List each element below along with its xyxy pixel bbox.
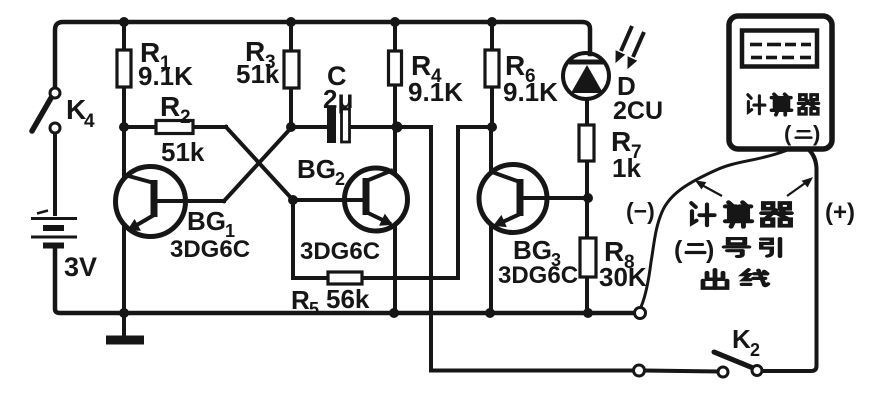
svg-text:9.1K: 9.1K: [138, 61, 193, 91]
terminal on lower rail: [634, 365, 645, 376]
switch K1: [32, 88, 60, 133]
wire BG2 collector: [393, 127, 397, 171]
wire R8 top: [585, 198, 589, 239]
resistor R7: [579, 125, 594, 161]
wire BG1 base diagonal to R3 node: [224, 128, 291, 201]
wire R1 top: [122, 22, 126, 52]
wire C right: [349, 125, 397, 129]
wire BG3 emitter: [489, 225, 493, 313]
wire R4 bottom: [393, 84, 397, 129]
wire BG1 base: [188, 199, 224, 203]
wire R3 bottom: [289, 87, 293, 129]
transistor BG2: [342, 168, 408, 231]
svg-text:2: 2: [750, 340, 760, 360]
svg-text:(: (: [784, 121, 792, 146]
svg-text:30K: 30K: [599, 262, 647, 292]
wire BG1 collector: [122, 127, 126, 178]
svg-text:R: R: [160, 91, 180, 122]
wire calculator plus lead: [763, 151, 817, 371]
ground: [106, 313, 144, 340]
wire R8 bottom: [585, 275, 589, 313]
note line3 出线: [703, 270, 768, 288]
wire lower rail left segment: [431, 369, 633, 373]
light arrows into photodiode: [616, 26, 644, 68]
svg-text:4: 4: [84, 111, 95, 132]
calculator jack label (二): [784, 121, 820, 146]
svg-text:1k: 1k: [612, 153, 641, 183]
annotation arrow to minus lead: [696, 181, 722, 196]
svg-text:2CU: 2CU: [613, 97, 663, 125]
wire BG1 emitter: [122, 226, 126, 313]
wire R4 top: [393, 22, 397, 52]
svg-text:(−): (−): [626, 198, 655, 224]
wire BG2 base vertical: [291, 200, 295, 278]
svg-text:3DG6C: 3DG6C: [300, 238, 380, 265]
svg-text:(: (: [674, 236, 683, 264]
annotation arrow to plus lead: [787, 178, 812, 196]
wire R5 left: [293, 276, 330, 280]
svg-text:9.1K: 9.1K: [408, 77, 463, 107]
switch K2: [714, 352, 762, 377]
svg-text:51k: 51k: [161, 137, 205, 167]
note line1 计算器: [691, 202, 791, 226]
svg-text:BG: BG: [297, 154, 336, 184]
svg-text:BG: BG: [513, 235, 552, 265]
wire output from R4 node down to lower rail: [399, 127, 431, 371]
wire R2 diagonal to BG2 base node: [226, 127, 293, 200]
wire R2 right: [192, 125, 226, 129]
battery 3V: [31, 211, 77, 246]
svg-text:): ): [706, 236, 714, 264]
svg-text:2: 2: [180, 107, 191, 128]
svg-text:BG: BG: [187, 206, 226, 236]
svg-text:51k: 51k: [236, 59, 280, 89]
svg-text:3DG6C: 3DG6C: [498, 262, 578, 289]
resistor R3: [284, 51, 299, 88]
note line2 (二)号引: [674, 236, 780, 264]
svg-text:K: K: [732, 324, 751, 354]
resistor R6: [485, 50, 499, 87]
wire R3 top: [289, 22, 293, 52]
wire calculator minus lead: [641, 151, 785, 307]
resistor R5: [328, 272, 362, 284]
wire R2 left: [124, 125, 157, 129]
svg-text:2: 2: [335, 169, 345, 189]
calculator label 计算器: [748, 94, 819, 115]
wire BG3 collector: [489, 127, 493, 171]
transistor BG1: [116, 167, 189, 237]
resistor R2: [156, 121, 193, 134]
wire top rail: [55, 22, 590, 88]
wire R7 bottom: [585, 160, 589, 200]
resistor R4: [389, 51, 402, 85]
capacitor C: [327, 108, 350, 143]
wire switch to battery: [53, 133, 57, 216]
svg-text:R: R: [291, 285, 310, 315]
wire R1 bottom to node: [122, 85, 126, 129]
svg-text:3V: 3V: [64, 252, 97, 282]
calculator body: [729, 16, 832, 149]
wire BG2 base: [293, 198, 342, 202]
wire lower rail mid segment: [645, 371, 717, 372]
terminal minus (open circle on ground rail): [635, 308, 646, 319]
svg-text:): ): [813, 121, 820, 146]
svg-text:9.1K: 9.1K: [503, 77, 558, 107]
calculator display: [742, 31, 817, 67]
svg-text:5: 5: [309, 299, 319, 319]
wire bottom rail: [55, 247, 634, 313]
svg-text:56k: 56k: [326, 284, 370, 314]
wire node link to R6 column: [458, 125, 490, 129]
svg-text:2μ: 2μ: [323, 84, 353, 114]
svg-text:3DG6C: 3DG6C: [170, 236, 250, 263]
wire BG3 base: [548, 196, 588, 200]
wire R5 right riser: [364, 127, 458, 278]
svg-text:(+): (+): [825, 199, 855, 226]
wire C left: [291, 125, 328, 129]
wire LED to R7: [585, 99, 589, 128]
wire BG2 emitter: [393, 227, 397, 313]
calculator display dashes: [750, 45, 811, 58]
resistor R8: [580, 238, 596, 277]
transistor BG3: [479, 165, 548, 233]
resistor R1: [117, 50, 131, 87]
photodiode D: [563, 53, 609, 99]
wire R6 top: [490, 22, 494, 52]
wire R6 bottom: [490, 86, 494, 129]
